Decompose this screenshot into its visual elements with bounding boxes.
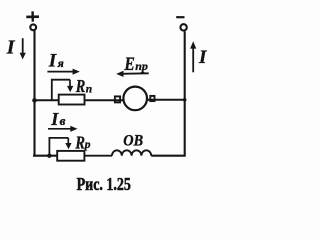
svg-text:R: R [75,134,86,153]
arrow Iя [47,69,79,75]
wire right vertical [184,31,186,155]
node junction right top [183,98,187,102]
arrow Eпр [116,71,149,77]
terminal circle left [30,24,36,30]
wire coil to right rail [151,155,186,157]
svg-text:I: I [50,109,59,129]
inductor OB field winding [112,150,151,155]
svg-text:ОВ: ОВ [123,133,143,150]
svg-text:I: I [198,47,207,68]
arrow Iв [48,126,78,132]
resistor Rп [59,95,85,105]
resistor Rр [57,151,84,161]
wire armature branch left [34,99,59,101]
svg-text:я: я [57,56,64,70]
svg-text:R: R [75,78,86,97]
wire left vertical [33,31,35,157]
rheostat tap Rп [52,80,74,100]
plus terminal symbol [26,11,39,21]
svg-text:п: п [86,83,92,95]
node junction field tap [47,154,51,158]
wire motor to right rail [147,99,184,101]
svg-text:I: I [6,36,16,58]
terminal circle right [180,24,186,30]
svg-text:Рис. 1.25: Рис. 1.25 [77,176,131,195]
wire resistor to coil [84,155,112,157]
motor armature M [123,87,147,111]
svg-text:в: в [60,113,66,128]
wire resistor to motor [85,99,124,101]
svg-text:I: I [48,50,57,71]
svg-text:пр: пр [135,59,148,73]
node junction left top [32,98,37,103]
svg-text:E: E [123,54,134,74]
minus terminal symbol [176,16,184,18]
current arrow I left [20,38,26,59]
rheostat tap Rр [49,138,71,155]
wire field branch left [33,155,57,157]
current arrow I right [190,41,196,72]
motor brush left [115,96,120,102]
svg-text:р: р [84,139,91,151]
motor brush right [150,96,154,101]
